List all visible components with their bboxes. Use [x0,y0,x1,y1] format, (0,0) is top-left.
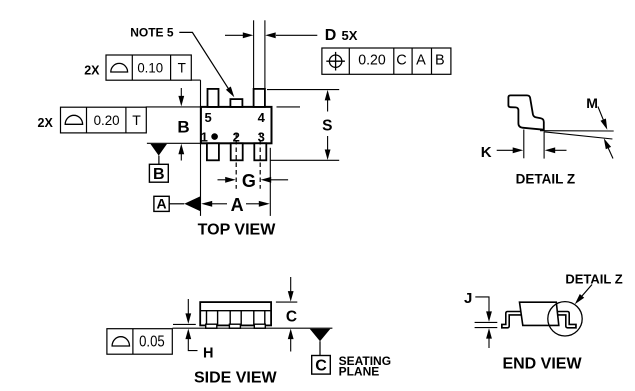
lead 2 foot [229,324,240,328]
svg-text:SIDE VIEW: SIDE VIEW [194,369,278,386]
arrow: J bottom (up) [488,338,490,348]
svg-text:C: C [286,309,297,326]
arrow: M lower (up) [608,148,613,159]
svg-text:S: S [322,118,332,135]
wire: H reference tick [173,323,196,325]
wire: M lower angled line [544,132,613,139]
svg-text:A: A [231,195,244,215]
feature control frame FCF2 (profile 0.20 T) [61,107,147,133]
svg-text:K: K [481,144,492,161]
pin centerline dashed (pin 2) [235,133,237,189]
arrowhead: DETAIL Z leader [575,294,584,304]
profile-of-surface symbol (FCF1) [111,63,128,72]
wire: C reference tick [276,301,297,303]
svg-text:C: C [315,357,327,374]
wire: M upper tangent line [540,130,614,132]
arrow: B bottom (up) [180,154,182,161]
arrow: D right (points left) [276,34,317,36]
wire: vertical extension line (body right edge) [269,148,271,216]
wire: NOTE 5 leader [179,32,229,89]
wire: DETAIL Z leader [579,285,593,301]
arrow: J top (down) [486,311,492,322]
right gull-wing lead (end view) [555,313,577,326]
lead pin 4 (top right) [254,89,265,107]
svg-text:0.05: 0.05 [139,334,165,351]
lead 3 foot [254,324,265,328]
pin 1 index dot [211,133,218,140]
feature control frame FCF1 (profile 0.10 T) [106,55,191,80]
svg-text:4: 4 [258,110,266,125]
svg-text:2X: 2X [84,64,100,78]
svg-text:C: C [396,53,406,69]
lead pin 1 (bottom left) [207,143,219,160]
wire: body top strip line [200,310,271,312]
wire: seating plane line [173,327,333,329]
arrow: H bottom (up) with bent tail [188,339,197,351]
svg-text:5: 5 [204,110,211,125]
arrowhead: NOTE 5 leader [226,87,234,98]
lead pin 5 (top left) [208,89,219,107]
wire: datum C stem [319,341,321,355]
arrow: C top (down) [290,277,292,293]
svg-text:B: B [153,166,165,183]
wire: datum A connector [169,203,184,205]
svg-text:DETAIL Z: DETAIL Z [516,172,576,187]
wire: D extension line left (lead 4 left edge) [253,20,255,89]
package body (top view) [201,107,272,143]
svg-text:B: B [435,53,445,69]
wire: leader from FCF1 bottom edge to extension line [191,79,201,81]
svg-text:B: B [177,117,189,136]
lead 3 (side view) [254,311,265,325]
lead 2 (side view) [230,311,241,325]
left gull-wing lead (end view) [501,313,522,326]
datum A box [154,196,169,211]
wire: lead top extension to right (S top line) [267,89,339,91]
arrow: S bottom (down) [327,136,329,150]
datum A triangle [184,196,200,211]
wire: body top edge extension to left (FCF2 leader / B top line) [146,106,201,108]
svg-text:0.20: 0.20 [358,53,386,69]
datum B triangle [150,144,167,156]
feature control frame FCF3 (position 0.20 C A B) [322,48,451,74]
detail Z circle [548,302,582,336]
svg-text:END VIEW: END VIEW [502,356,582,373]
pin centerline dashed (pin 3) [259,133,261,189]
svg-text:A: A [156,196,166,212]
wire: K left extension line [523,130,525,159]
svg-text:J: J [464,290,472,307]
arrow: A right [259,201,270,207]
datum C triangle [310,329,331,341]
arrow: H top (down) [187,299,189,315]
arrow: M upper (down) [598,107,605,124]
position symbol (FCF3) [326,52,345,71]
svg-text:A: A [416,53,426,69]
wire: body bottom edge extension to left (B bottom line) [147,142,201,144]
note-5 tab (top center) [230,99,242,107]
svg-text:D: D [325,27,337,44]
svg-text:0.10: 0.10 [137,60,163,75]
wire: lead bottom extension to right (S bottom line) [270,159,339,161]
package body (side view) [200,302,271,325]
svg-text:T: T [178,60,186,75]
wire: D extension line right (lead 4 right edge) [264,20,266,89]
arrow: B top (down) [180,88,182,97]
svg-text:G: G [242,171,256,191]
arrow: G right (points left) [271,179,288,181]
wire: J lower line (foot bottom) [475,327,498,329]
feature control frame FCF4 (profile 0.05) [107,329,172,355]
arrow: C bottom (up) [290,339,292,352]
lead pin 3 (bottom right) [254,143,266,160]
svg-text:TOP VIEW: TOP VIEW [198,221,277,238]
svg-text:0.20: 0.20 [94,112,120,128]
arrow: G left (points right) [218,179,227,181]
profile-of-surface symbol (FCF2) [65,115,82,124]
datum C box [312,356,331,375]
datum B box [149,164,168,182]
svg-text:2X: 2X [38,116,54,130]
wire: J leader bent [475,297,489,313]
package body (end view) [520,302,559,325]
svg-text:DETAIL Z: DETAIL Z [565,271,622,286]
profile-of-surface symbol (FCF4) [112,337,129,346]
arrow: K left (points right) [497,149,514,151]
lead 1 (side view) [207,311,218,325]
svg-text:PLANE: PLANE [339,364,380,378]
arrow: D left (points right) [225,34,245,36]
svg-text:1: 1 [201,130,208,145]
wire: body top edge short extension to right [277,106,301,108]
wire: K right extension line [543,132,545,159]
wire: vertical extension line (body left edge, datum A/B side) [200,80,202,216]
svg-text:5X: 5X [342,28,358,43]
svg-text:2: 2 [233,130,240,145]
wire: datum B stem [158,156,160,165]
lead pin 2 (bottom middle) [231,143,243,160]
wire: J upper line (foot top) [475,321,498,323]
svg-text:M: M [586,95,598,111]
svg-text:3: 3 [258,130,265,145]
lead 1 foot [206,324,217,328]
svg-text:NOTE 5: NOTE 5 [130,25,174,39]
arrow: A left [201,201,212,207]
svg-text:T: T [132,112,141,128]
arrow: S top (up) [327,100,329,112]
svg-text:H: H [203,346,213,362]
arrow: K right (points left) [554,149,567,151]
lead profile outline (detail Z) [508,95,543,129]
